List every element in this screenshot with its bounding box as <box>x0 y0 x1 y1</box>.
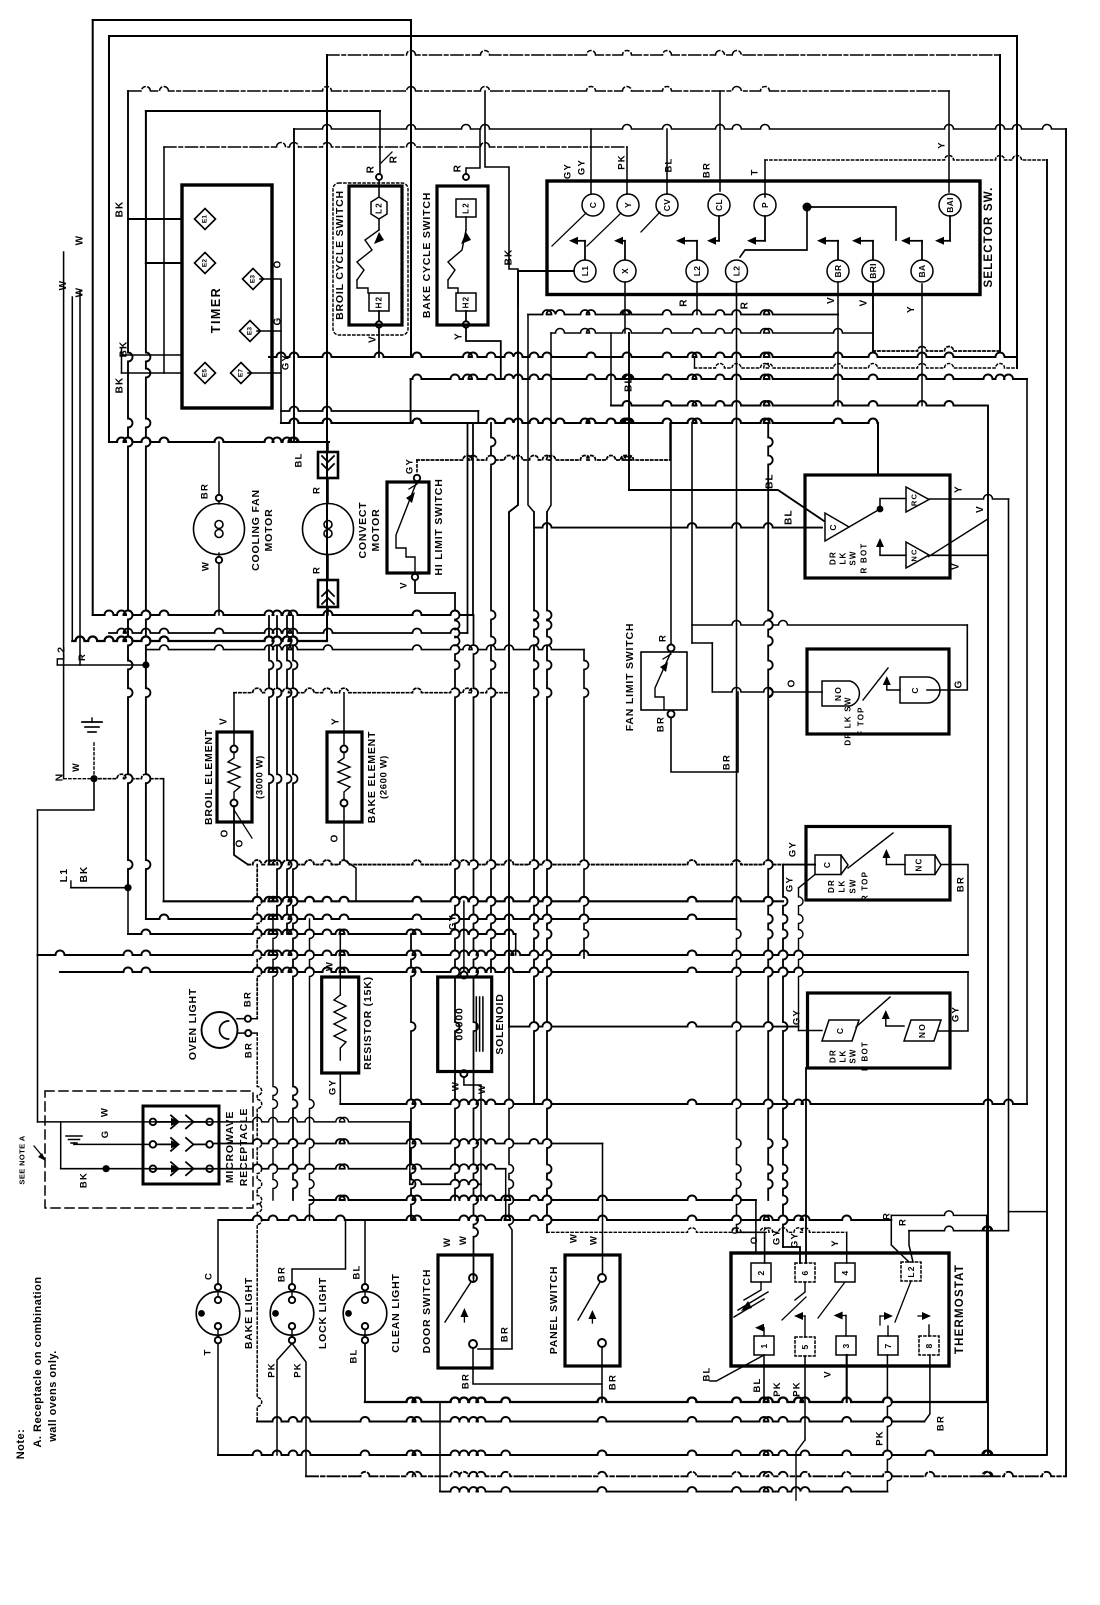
svg-text:R TOP: R TOP <box>861 871 870 901</box>
svg-text:RC: RC <box>910 493 919 506</box>
svg-text:BRI: BRI <box>868 263 878 279</box>
svg-text:BA: BA <box>917 265 927 278</box>
svg-text:CLEAN LIGHT: CLEAN LIGHT <box>390 1273 402 1352</box>
svg-text:F TOP: F TOP <box>857 706 866 735</box>
svg-text:2: 2 <box>756 1270 766 1276</box>
svg-text:COOLING FAN: COOLING FAN <box>250 489 262 571</box>
svg-text:SELECTOR SW.: SELECTOR SW. <box>983 186 995 287</box>
svg-text:GY: GY <box>448 914 459 930</box>
svg-text:V: V <box>399 581 410 589</box>
svg-text:NO: NO <box>833 686 843 701</box>
svg-text:LK: LK <box>839 1049 848 1062</box>
svg-text:FAN LIMIT SWITCH: FAN LIMIT SWITCH <box>624 623 636 731</box>
svg-text:W: W <box>75 287 86 298</box>
svg-text:O: O <box>235 839 246 848</box>
svg-text:C: C <box>204 1272 215 1280</box>
svg-text:X: X <box>620 268 630 274</box>
svg-text:O: O <box>330 834 341 843</box>
svg-text:BL: BL <box>752 1377 763 1392</box>
svg-text:BR: BR <box>243 991 254 1007</box>
svg-text:wall ovens only.: wall ovens only. <box>47 1350 59 1443</box>
svg-text:E3: E3 <box>247 327 254 336</box>
svg-text:L2: L2 <box>55 646 67 661</box>
svg-text:T: T <box>750 168 761 175</box>
svg-text:C: C <box>822 861 832 868</box>
svg-text:GY: GY <box>577 159 588 175</box>
svg-text:C: C <box>828 523 838 530</box>
svg-text:G: G <box>954 680 965 689</box>
svg-text:Y: Y <box>830 1239 841 1247</box>
svg-text:T: T <box>203 1348 214 1355</box>
svg-text:NO: NO <box>917 1023 927 1038</box>
svg-text:E5: E5 <box>202 369 209 378</box>
svg-text:PANEL SWITCH: PANEL SWITCH <box>548 1266 560 1355</box>
svg-text:H2: H2 <box>462 296 471 309</box>
svg-text:R: R <box>658 634 669 642</box>
svg-text:Y: Y <box>623 202 633 208</box>
svg-text:BK: BK <box>504 249 515 266</box>
svg-text:NC: NC <box>915 858 924 872</box>
svg-text:O: O <box>730 1226 741 1235</box>
svg-text:R: R <box>740 301 751 309</box>
svg-text:NC: NC <box>910 548 919 561</box>
svg-text:BR: BR <box>244 1042 255 1058</box>
svg-text:V: V <box>975 505 986 513</box>
svg-text:LK: LK <box>838 879 847 892</box>
svg-text:3: 3 <box>841 1343 851 1349</box>
svg-text:BAI: BAI <box>945 197 955 213</box>
svg-text:W: W <box>100 1107 111 1117</box>
svg-text:R: R <box>453 164 464 172</box>
svg-text:W: W <box>58 280 69 291</box>
svg-text:V: V <box>951 562 962 570</box>
svg-text:V: V <box>219 717 230 725</box>
svg-text:Y: Y <box>906 305 917 313</box>
svg-text:00000: 00000 <box>454 1007 466 1040</box>
svg-text:A. Receptacle on combination: A. Receptacle on combination <box>32 1276 44 1447</box>
svg-text:BK: BK <box>115 377 126 394</box>
svg-text:W: W <box>589 1235 600 1245</box>
svg-text:6: 6 <box>800 1270 810 1276</box>
svg-text:L1: L1 <box>58 868 70 883</box>
svg-text:BR: BR <box>500 1326 511 1342</box>
svg-text:SEE NOTE A: SEE NOTE A <box>18 1135 27 1184</box>
svg-text:CL: CL <box>714 199 724 211</box>
svg-text:E2: E2 <box>202 259 209 268</box>
svg-text:BR: BR <box>702 162 713 178</box>
svg-text:SOLENOID: SOLENOID <box>494 993 506 1054</box>
svg-text:1: 1 <box>759 1343 769 1349</box>
svg-text:R: R <box>77 653 88 661</box>
svg-text:BAKE CYCLE SWITCH: BAKE CYCLE SWITCH <box>421 192 433 318</box>
svg-text:V: V <box>859 299 870 307</box>
svg-text:G: G <box>100 1130 111 1139</box>
svg-text:GY: GY <box>790 1232 801 1248</box>
svg-text:CONVECT: CONVECT <box>357 502 369 559</box>
svg-text:BL: BL <box>765 473 776 489</box>
svg-text:GY: GY <box>785 876 796 892</box>
svg-text:SW: SW <box>849 550 858 565</box>
svg-text:Note:: Note: <box>15 1429 27 1460</box>
svg-text:GY: GY <box>771 1229 782 1245</box>
svg-text:SW: SW <box>849 878 858 893</box>
svg-text:L2: L2 <box>906 1265 916 1277</box>
svg-text:BL: BL <box>349 1348 360 1363</box>
svg-text:PK: PK <box>772 1381 783 1397</box>
svg-text:Y: Y <box>953 485 964 493</box>
svg-text:RECEPTACLE: RECEPTACLE <box>238 1108 250 1186</box>
svg-text:SW: SW <box>849 1048 858 1063</box>
svg-text:8: 8 <box>924 1343 934 1349</box>
svg-text:TIMER: TIMER <box>209 287 223 333</box>
svg-text:BAKE ELEMENT: BAKE ELEMENT <box>366 731 378 823</box>
svg-text:GY: GY <box>788 841 799 857</box>
svg-text:O: O <box>220 829 231 838</box>
svg-text:BR: BR <box>956 876 967 892</box>
svg-text:GY: GY <box>405 458 416 474</box>
svg-text:BR: BR <box>608 1374 619 1390</box>
svg-text:R BOT: R BOT <box>860 543 869 574</box>
svg-text:W: W <box>451 1081 462 1091</box>
svg-text:L2: L2 <box>692 266 702 277</box>
svg-text:MOTOR: MOTOR <box>370 509 382 552</box>
svg-text:W: W <box>458 1235 469 1245</box>
svg-text:C: C <box>835 1027 845 1034</box>
svg-text:GY: GY <box>563 163 574 179</box>
svg-text:BR: BR <box>656 716 667 732</box>
svg-text:DR: DR <box>827 879 836 893</box>
svg-text:DR: DR <box>829 1049 838 1063</box>
svg-text:Y: Y <box>331 717 342 725</box>
svg-text:W: W <box>569 1233 580 1243</box>
svg-text:E7: E7 <box>238 369 245 378</box>
svg-text:Y: Y <box>454 332 465 340</box>
svg-text:HI LIMIT SWITCH: HI LIMIT SWITCH <box>433 478 445 575</box>
svg-text:DOOR SWITCH: DOOR SWITCH <box>421 1269 433 1354</box>
svg-text:PK: PK <box>791 1381 802 1397</box>
svg-text:LOCK LIGHT: LOCK LIGHT <box>317 1277 329 1349</box>
svg-text:E1: E1 <box>202 215 209 224</box>
svg-text:(2600 W): (2600 W) <box>379 755 390 799</box>
svg-text:BL: BL <box>352 1264 363 1279</box>
svg-text:7: 7 <box>883 1343 893 1349</box>
svg-text:GY: GY <box>792 1009 803 1025</box>
svg-text:R: R <box>389 155 400 163</box>
svg-text:LK: LK <box>839 551 848 564</box>
svg-text:BR: BR <box>277 1266 288 1282</box>
svg-text:V: V <box>368 335 379 343</box>
svg-text:RESISTOR (15K): RESISTOR (15K) <box>362 976 374 1070</box>
svg-text:BAKE LIGHT: BAKE LIGHT <box>243 1277 255 1349</box>
svg-text:P: P <box>760 202 770 208</box>
svg-text:L2: L2 <box>462 202 471 214</box>
svg-text:R: R <box>312 566 323 574</box>
svg-text:PK: PK <box>875 1430 886 1446</box>
svg-text:E3: E3 <box>250 275 257 284</box>
svg-text:C: C <box>588 202 598 208</box>
svg-text:W: W <box>325 961 336 971</box>
svg-text:PK: PK <box>617 154 628 170</box>
svg-text:THERMOSTAT: THERMOSTAT <box>954 1264 966 1354</box>
svg-text:O: O <box>787 679 798 688</box>
svg-text:MOTOR: MOTOR <box>263 509 275 552</box>
svg-text:BR: BR <box>722 754 733 770</box>
svg-text:PK: PK <box>293 1362 304 1378</box>
svg-text:Y: Y <box>937 141 948 149</box>
svg-text:R: R <box>312 486 323 494</box>
svg-text:5: 5 <box>800 1344 810 1350</box>
svg-text:CV: CV <box>662 199 672 211</box>
svg-text:(3000 W): (3000 W) <box>255 755 266 799</box>
svg-text:BK: BK <box>115 201 126 218</box>
svg-text:W: W <box>75 235 86 246</box>
svg-text:O: O <box>273 260 284 269</box>
svg-text:BL: BL <box>701 1366 712 1381</box>
svg-text:BK: BK <box>79 1172 90 1188</box>
svg-text:L1: L1 <box>580 266 590 277</box>
svg-text:BL: BL <box>294 452 305 467</box>
svg-text:BL: BL <box>784 509 795 525</box>
svg-text:PK: PK <box>267 1362 278 1378</box>
svg-text:BR: BR <box>833 265 843 278</box>
svg-text:GY: GY <box>951 1006 962 1022</box>
svg-text:OVEN LIGHT: OVEN LIGHT <box>187 988 199 1060</box>
svg-text:C: C <box>910 686 920 693</box>
svg-text:DR LK SW: DR LK SW <box>844 696 853 745</box>
svg-text:H2: H2 <box>375 296 384 309</box>
svg-text:L2: L2 <box>375 202 384 214</box>
svg-text:F BOT: F BOT <box>861 1041 870 1071</box>
svg-text:W: W <box>201 561 212 571</box>
svg-text:BK: BK <box>79 866 90 883</box>
svg-text:L2: L2 <box>732 266 742 277</box>
svg-text:N: N <box>54 773 66 782</box>
svg-text:BR: BR <box>461 1373 472 1389</box>
svg-text:BL: BL <box>664 157 675 172</box>
svg-text:4: 4 <box>840 1270 850 1276</box>
svg-text:DR: DR <box>829 551 838 565</box>
svg-text:V: V <box>826 296 837 304</box>
svg-text:BROIL ELEMENT: BROIL ELEMENT <box>203 729 215 825</box>
svg-text:G: G <box>273 317 284 326</box>
svg-text:W: W <box>477 1084 488 1094</box>
svg-text:R: R <box>366 165 377 173</box>
svg-text:GY: GY <box>328 1079 339 1095</box>
svg-text:W: W <box>442 1237 453 1247</box>
svg-text:R: R <box>898 1218 909 1226</box>
svg-text:BR: BR <box>200 483 211 499</box>
svg-text:R: R <box>679 298 690 306</box>
svg-text:BR: BR <box>936 1415 947 1431</box>
svg-text:BROIL CYCLE SWITCH: BROIL CYCLE SWITCH <box>334 190 346 320</box>
svg-text:W: W <box>71 762 81 772</box>
svg-text:V: V <box>823 1370 834 1378</box>
svg-text:O: O <box>749 1236 760 1245</box>
